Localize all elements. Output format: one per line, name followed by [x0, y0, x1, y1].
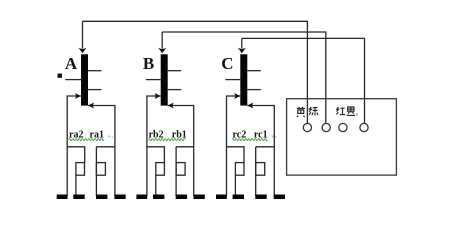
right tap stub C lower	[247, 89, 260, 91]
resistor ra1 body	[96, 163, 105, 176]
resistor rb1 body	[176, 163, 185, 176]
wire below resistor rc2	[234, 175, 236, 196]
arrowhead into C top	[238, 48, 246, 54]
wire loop top ra1	[96, 147, 115, 196]
wire below resistor rb2	[155, 175, 157, 196]
wire loop top rc1	[256, 147, 275, 196]
wire from yellow terminal to transformer A top	[83, 21, 308, 123]
transformer C winding bar	[240, 54, 247, 105]
terminal 3 (red)	[339, 123, 347, 131]
left tap stub B	[146, 79, 161, 81]
ground foot B4	[194, 195, 205, 200]
wire loop top rb1	[176, 147, 194, 196]
label hong (red)	[336, 107, 345, 115]
comma after hei	[356, 114, 357, 116]
label lv (green)	[309, 107, 318, 115]
trailing faint mark after rc1	[272, 136, 274, 138]
right tap stub B upper	[168, 70, 182, 72]
wire from black terminal to transformer C top	[242, 38, 365, 123]
arrowhead into A top	[79, 48, 87, 54]
wire loop top rb2	[147, 147, 165, 163]
ground foot B3	[176, 195, 187, 200]
terminal 2 (green)	[322, 123, 330, 131]
node dot left of A	[58, 74, 63, 78]
ground foot A4	[114, 195, 125, 200]
ground foot C4	[274, 195, 285, 200]
right tap stub B lower	[168, 89, 182, 91]
ground foot A1	[57, 195, 68, 200]
resistor rb2 body	[156, 163, 165, 176]
wire left rail A with arrow into bar	[67, 96, 81, 196]
wire left rail C with arrow into bar	[227, 96, 241, 196]
resistor rc2 body	[235, 163, 244, 176]
green squiggly underline rb	[149, 139, 186, 141]
wire below resistor ra2	[75, 175, 77, 196]
ground foot C2	[233, 195, 244, 200]
wire right rail C with arrow into bar	[247, 106, 274, 197]
arrowhead into B top	[158, 48, 166, 54]
left tap stub A	[65, 79, 81, 81]
terminal 4 (black)	[360, 123, 368, 131]
ground foot A2	[73, 195, 84, 200]
wire from green terminal to transformer B top	[162, 32, 326, 123]
green squiggly underline ra	[69, 139, 104, 141]
svg-text:A: A	[65, 54, 78, 73]
left tap stub C	[225, 79, 240, 81]
terminal 1 (yellow)	[303, 123, 311, 131]
trailing faint mark after ra1	[108, 136, 110, 138]
wire left rail B with arrow into bar	[147, 96, 161, 196]
wire loop top ra2	[67, 147, 85, 163]
right tap stub A upper	[88, 70, 102, 72]
wire right rail A with arrow into bar	[88, 106, 115, 197]
ground foot A3	[96, 195, 107, 200]
resistor rc1 body	[256, 163, 265, 176]
right tap stub A lower	[88, 89, 102, 91]
ground foot C1	[216, 195, 227, 200]
ground foot B2	[153, 195, 164, 200]
instrument box	[287, 99, 397, 175]
label hei (black)	[347, 106, 355, 115]
transformer A winding bar	[81, 54, 88, 105]
wire loop top rc2	[227, 147, 245, 163]
resistor ra2 body	[76, 163, 85, 176]
green squiggly underline rc	[232, 139, 267, 141]
svg-text:B: B	[143, 54, 154, 73]
transformer B winding bar	[161, 54, 168, 105]
svg-text:C: C	[221, 54, 233, 73]
ground foot C3	[255, 195, 266, 200]
right tap stub C upper	[247, 70, 260, 72]
label huang (yellow)	[297, 107, 305, 117]
ground foot B1	[136, 195, 147, 200]
wire right rail B with arrow into bar	[168, 106, 194, 197]
